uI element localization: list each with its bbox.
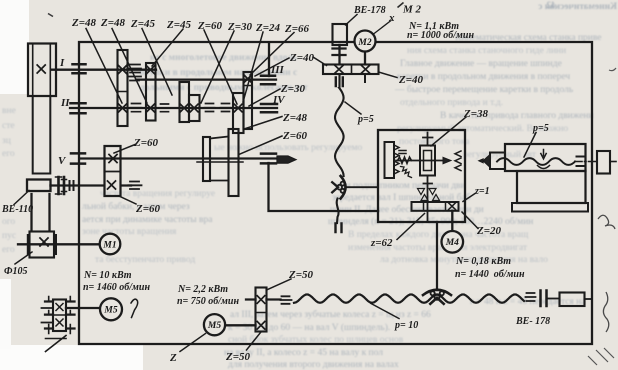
leader z60 top5 [204,30,237,104]
leader z60 right [240,136,282,154]
svg-text:Z=60: Z=60 [135,203,160,215]
leader p10 [371,304,399,319]
spline marks right of z45 [160,104,170,112]
leader z24 top7 [243,32,263,102]
white margin top-left [0,0,29,94]
leader z45 top3 [142,29,172,96]
svg-text:BE- 178: BE- 178 [515,316,550,327]
motor M4 stem [451,211,453,231]
svg-text:Z=24: Z=24 [255,22,280,34]
motor M2 [355,31,376,52]
leader z38 [431,117,466,146]
clutch lower stem [424,176,433,223]
svg-text:Z=45: Z=45 [130,18,155,30]
svg-text:М5: М5 [103,306,117,316]
break marks lower shaft [129,182,142,190]
feed gearbox housing [378,130,465,222]
motor M5 left shaft [66,307,100,309]
svg-text:отдельного привода и т.д.: отдельного привода и т.д. [400,98,503,108]
break marks feed rod [526,293,536,301]
svg-text:М1: М1 [102,241,116,251]
feed take-off path [269,163,379,211]
svg-text:зц: зц [2,136,11,146]
worm mesh on feed rod [423,290,451,295]
leader z66 top8 [250,33,294,76]
svg-text:ается при динамике частоты вра: ается при динамике частоты вра [82,215,213,225]
gear block z45 on shafts I-II [146,63,156,121]
margin scribble bottom right [588,348,614,365]
handwheel [597,151,610,174]
svg-text:BE-110: BE-110 [1,204,33,215]
spring on feed shaft [398,157,412,164]
spline marks shaft II middle [205,104,215,112]
shaft to BE-110 [51,184,132,186]
svg-text:N= 2,2 кВт: N= 2,2 кВт [177,284,228,295]
diagonal spring [401,167,412,178]
bearing shaft IV right [261,104,277,112]
svg-text:Z=66: Z=66 [284,23,309,35]
svg-text:Z=60: Z=60 [282,130,307,142]
leader p5 cross [524,133,536,158]
svg-text:п= 750 об/мин: п= 750 об/мин [177,296,239,307]
svg-text:Z=50: Z=50 [288,269,313,281]
svg-text:п= 1000 об/мин: п= 1000 об/мин [407,30,474,41]
leader z62 [397,214,425,240]
svg-text:зоне частоты вращения: зоне частоты вращения [82,227,177,237]
svg-text:Z=30: Z=30 [280,83,305,95]
svg-text:частота вращения регулируе: частота вращения регулируе [100,189,215,199]
drop shaft from feed box [436,222,438,290]
gear z66-z40 on shafts III-IV [244,72,253,129]
feed rod wave [294,295,524,303]
svg-text:Z: Z [169,352,177,364]
motor M5 bottom [204,314,225,335]
leader z50 top [267,279,292,290]
svg-text:Z=48: Z=48 [100,17,125,29]
svg-text:Z=60: Z=60 [133,137,158,149]
margin scribble right middle [598,215,615,229]
svg-text:М4: М4 [445,238,459,248]
leader Z motor [180,334,206,352]
margin scribble right lower [603,292,608,332]
sleeve column below BE-110 [32,194,50,231]
svg-text:Z=30: Z=30 [227,21,252,33]
centre cone [483,155,490,168]
leader under gearbox [46,336,67,352]
coupling on lower shaft [59,177,65,194]
sliding fork bar R1 [203,137,210,181]
gear wheel on shaft I (big, left) [28,44,56,97]
svg-text:Z=48: Z=48 [71,17,96,29]
tailstock body [505,144,586,171]
bearing shaft III right [261,76,275,84]
sliding fork bar R2 [229,129,239,196]
svg-text:х: х [388,12,395,24]
gear bar under M2 [323,65,379,75]
svg-text:М5: М5 [207,321,221,331]
fork link bottom [210,180,229,182]
svg-text:BE-178: BE-178 [353,5,386,16]
leader z48 top1 [86,29,122,104]
housing wall [268,43,270,76]
break marks at z50 [281,296,292,304]
bevel pair triangles [418,189,437,195]
cross-feed screw wave [497,158,575,165]
leader BE-178 top [346,15,358,26]
svg-text:p=5: p=5 [357,114,374,125]
leader z60 left1 [114,145,135,154]
bevel mesh on vertical screw [341,176,346,199]
ratchet rack [385,142,395,178]
svg-text:Z=40: Z=40 [289,52,314,64]
svg-text:ал III, затем через зубчатые к: ал III, затем через зубчатые колеса z = … [230,309,431,320]
spline marks right of block [129,65,141,81]
feed rod stubs at z50 [246,298,281,300]
coupling feed rod [541,291,547,307]
svg-text:сте: сте [2,121,15,131]
svg-text:42: 42 [546,1,556,11]
shaft II [70,107,277,109]
svg-text:М 2: М 2 [402,4,422,16]
coupling box BE-110 [27,180,51,192]
leader z40 bar [379,72,398,78]
svg-text:Z=38: Z=38 [463,108,488,120]
leader z30 top6 [201,31,234,103]
stub below right gear [364,74,366,82]
leader BE-110 [14,191,29,205]
output gear bar in feed box [412,202,459,211]
bearing shaft V right [261,154,276,164]
leader z48 top2 [112,29,147,104]
svg-text:к = 30 и z до 60 — на вал V (ш: к = 30 и z до 60 — на вал V (шпиндель). [228,322,390,333]
equals mark in feed box [399,151,406,154]
svg-text:Z=60: Z=60 [197,20,222,32]
feed rod end box [548,298,559,300]
leader z45 top4 [152,29,183,66]
gear block z50-z50 [256,288,267,332]
link screw to feed box [347,186,378,188]
margin tick right top [609,68,616,71]
clutch stem [423,133,433,146]
gear z60 column on shaft V [105,146,121,196]
leader z20 [462,212,478,229]
svg-text:z=1: z=1 [474,186,490,197]
sleeve column below big gear [33,96,51,174]
shaft V [80,157,278,159]
svg-text:p= 10: p= 10 [394,320,418,331]
reduction gearbox at M5 left [53,300,66,332]
bearing shaft I left [73,64,86,73]
leader z48 right [244,117,282,130]
ratchet pawls right [455,151,461,171]
svg-text:z=62: z=62 [370,237,393,249]
svg-text:п= 1460 об/мин: п= 1460 об/мин [83,282,150,293]
bearing shaft V left [71,153,85,163]
feed shaft with arrow [396,160,443,162]
svg-text:p=5: p=5 [532,123,549,134]
vertical feed screw p=5 [335,75,344,176]
svg-text:Z=50: Z=50 [225,351,250,363]
gear z24 on shaft IV [233,93,244,133]
svg-text:IV: IV [272,94,286,106]
leader z1 [463,194,475,202]
brake box BE-178 top [333,24,348,45]
extra leader into bar [313,57,327,66]
gearbox input stubs [42,308,54,323]
svg-text:ном подшипником передачи дви: ном подшипником передачи дви [335,181,466,191]
svg-text:I: I [59,57,65,69]
leader z50 bottom [247,333,261,351]
pencil mark top-left [48,14,53,17]
svg-text:Ф105: Ф105 [4,266,28,277]
motor M5 bottom stem [226,324,256,326]
gear z30 on shaft II [189,95,200,121]
svg-text:Z=45: Z=45 [166,19,191,31]
svg-text:Главное движение — вращение шп: Главное движение — вращение шпинде [400,59,562,69]
shaft I [52,69,156,71]
bearing under gear bar [336,78,343,87]
svg-text:Z=20: Z=20 [476,225,501,237]
svg-text:Z=40: Z=40 [398,74,423,86]
shaft brake to gear bar [338,45,340,64]
svg-text:п= 1440 об/мин: п= 1440 об/мин [455,269,525,280]
friction clutch [420,146,435,176]
motor M1 shaft [18,243,99,245]
pencil tick [398,3,404,8]
svg-text:N= 0,18 кВт: N= 0,18 кВт [455,256,511,267]
shaft III [136,78,276,80]
svg-text:его: его [2,245,15,255]
svg-text:для получения второго движения: для получения второго движения на валах [228,360,399,370]
quill [490,153,505,170]
gear block z48-z48 on shafts I-II [118,50,128,126]
motor M5 left [100,298,122,320]
svg-text:ния схема станка станочного ги: ния схема станка станочного гиде лини [407,46,566,56]
svg-text:ого: ого [2,217,15,227]
leader F105 [15,252,32,264]
motor M4 [442,231,464,253]
handwheel shaft [575,161,597,163]
coupling under BE-178 [333,49,346,56]
leader z30 right [249,89,280,106]
svg-text:II: II [60,97,70,109]
svg-text:его: его [2,149,15,159]
motor M1 [100,234,121,255]
housing frame [79,42,592,344]
svg-text:III: III [270,64,285,76]
coupling box F105 [30,232,55,258]
white margin bottom-left [0,345,143,370]
bearing shaft II left [71,103,86,113]
svg-text:вне: вне [2,106,16,116]
svg-text:щани II. Далее обеспечивается: щани II. Далее обеспечивается при ди [330,204,484,215]
shaft V slot line [197,161,243,163]
svg-text:Z=48: Z=48 [282,112,307,124]
end marks of vertical screw [336,224,342,233]
leader z60 left2 [119,196,136,204]
leader p5 vertical [345,102,361,114]
pencil leader to x mark [374,21,392,35]
half nut symbol [541,150,546,159]
handwritten squiggle [131,299,138,317]
gear z45 on shaft II [180,82,190,122]
fork link top [210,137,229,139]
motor M2 stem [364,51,366,64]
arrow end of shaft V [277,156,296,163]
svg-text:та бесступенчато привод: та бесступенчато привод [95,254,195,265]
break marks cross screw [577,157,584,167]
svg-text:пус: пус [2,231,16,241]
svg-text:N= 10 кВт: N= 10 кВт [83,270,132,281]
svg-text:М2: М2 [357,38,371,48]
leader z40 right [255,58,289,76]
